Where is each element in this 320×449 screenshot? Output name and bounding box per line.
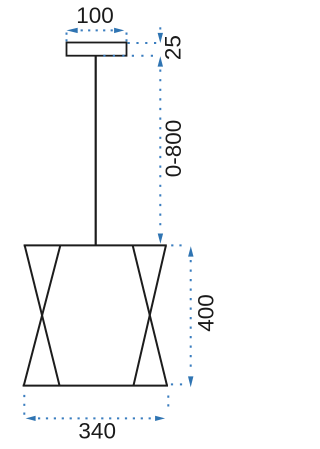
dimension 100: left extension dots — [66, 34, 68, 43]
svg-text:100: 100 — [76, 3, 114, 28]
dimension 100: dotted line — [82, 29, 112, 31]
dimension 340: left arrow (points left) — [26, 416, 36, 421]
svg-text:400: 400 — [194, 294, 219, 332]
dimension 100: right extension dots — [126, 34, 128, 43]
svg-text:340: 340 — [78, 419, 116, 444]
dimension 400: top extension dots — [172, 244, 184, 246]
lampshade left X strut: inner-top to outer-bottom — [24, 246, 61, 386]
dimension 100: right arrow — [114, 28, 124, 33]
dimension 0-800: bottom arrow (points down) — [158, 234, 163, 244]
lampshade left X strut: outer-top to inner-bottom — [25, 246, 60, 386]
lampshade bottom edge — [23, 385, 168, 387]
svg-text:25: 25 — [160, 35, 185, 60]
dimension 0-800: dotted line — [159, 71, 161, 229]
dimension 340: left extension dots — [23, 396, 25, 414]
dimension 25: top extension dots — [129, 42, 157, 44]
svg-text:0-800: 0-800 — [161, 120, 186, 178]
wire (suspension rod) — [95, 56, 97, 245]
dimension 340: right arrow (points right) — [155, 416, 165, 421]
dimension 400: top arrow (points up) — [188, 246, 193, 256]
dimension 100: left arrow — [67, 28, 78, 33]
dimension 25: overshoot dot above — [159, 27, 161, 29]
lampshade right X strut: outer-top to inner-bottom — [134, 246, 166, 386]
dimension 400: bottom arrow (points down) — [188, 376, 193, 387]
dimension 25: top arrow (points down) — [158, 33, 163, 43]
dimension 25: bottom arrow / 0-800 top arrow (points up) — [158, 56, 163, 66]
dimension 340: right extension dots — [167, 397, 169, 415]
lampshade right X strut: inner-top to outer-bottom — [133, 246, 167, 386]
dimension 25: bottom extension dots — [104, 55, 156, 57]
lampshade top edge — [24, 244, 167, 246]
canopy (ceiling mount) — [67, 43, 127, 56]
dimension 400: dotted line — [190, 261, 192, 372]
dimension 400: bottom extension dots — [172, 383, 183, 385]
dimension 340: dotted line — [39, 417, 154, 419]
